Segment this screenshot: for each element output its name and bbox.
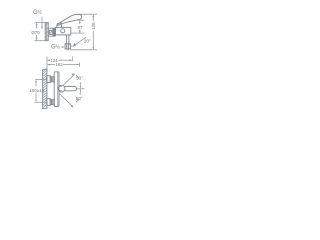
arc arrows bbox=[80, 83, 82, 85]
outlet pipe bbox=[67, 35, 69, 44]
swing line upper bbox=[63, 74, 75, 86]
svg-text:50°: 50° bbox=[76, 75, 83, 80]
svg-text:20°: 20° bbox=[84, 38, 91, 43]
pivot circle bbox=[58, 85, 65, 92]
svg-text:50°: 50° bbox=[76, 96, 83, 101]
arc stub upper bbox=[76, 75, 79, 78]
label 150±16 bbox=[29, 88, 44, 93]
upper flange bbox=[47, 76, 50, 83]
dim 97 extensions bbox=[77, 19, 85, 21]
lever handle (side) bbox=[58, 14, 82, 25]
wall section (hatched) bbox=[43, 70, 47, 109]
dim 97 line bbox=[79, 21, 81, 24]
label 138 (rotated) bbox=[91, 22, 96, 30]
s-union pipe bbox=[48, 28, 55, 36]
label 50 lower bbox=[76, 96, 83, 101]
dim 150±16 line bbox=[35, 82, 37, 87]
label Ø70 bbox=[31, 30, 40, 35]
swing arc bbox=[79, 84, 82, 93]
swing line lower bbox=[60, 94, 73, 107]
dim 163 line bbox=[48, 64, 55, 66]
label 124 bbox=[50, 58, 58, 63]
ext 124 right bbox=[71, 57, 73, 62]
dim 124 line bbox=[48, 59, 50, 61]
svg-text:138: 138 bbox=[91, 22, 96, 30]
20 degree reference line bbox=[73, 37, 86, 46]
label G1/2 bottom bbox=[51, 44, 61, 51]
20 degree arc bbox=[69, 44, 73, 47]
outlet union nut bbox=[65, 44, 70, 49]
handle neck bbox=[59, 87, 62, 91]
ext wall face up bbox=[46, 57, 48, 71]
svg-text:163: 163 bbox=[55, 62, 63, 67]
wall flange (escutcheon, side view) bbox=[45, 23, 48, 41]
leader G1/2 top bbox=[41, 17, 43, 29]
dim 150±16 extensions bbox=[35, 79, 47, 81]
svg-text:97: 97 bbox=[78, 25, 83, 30]
dim Ø70 extension lines bbox=[34, 22, 46, 24]
cartridge circle bbox=[61, 29, 65, 33]
leader arrow G1/2 bottom bbox=[61, 46, 63, 48]
arc stub lower bbox=[76, 99, 79, 102]
wall hatch bbox=[43, 68, 47, 108]
union nut (knurled) bbox=[53, 29, 55, 36]
label 50 upper bbox=[76, 75, 83, 80]
svg-text:Ø70: Ø70 bbox=[31, 30, 40, 35]
svg-text:G½: G½ bbox=[51, 44, 61, 51]
label 20deg bbox=[84, 38, 91, 43]
upper union nut bbox=[50, 77, 54, 82]
centerline dashes bbox=[77, 88, 86, 90]
lower flange bbox=[47, 99, 50, 106]
mixer body bar bbox=[54, 72, 59, 107]
dim Ø70 line+arrows bbox=[36, 23, 38, 28]
dim 138 extensions bbox=[80, 13, 97, 15]
dim 138 line bbox=[92, 15, 94, 21]
svg-text:G½: G½ bbox=[33, 9, 43, 16]
label 97 bbox=[78, 25, 83, 30]
lever capsule (plan) bbox=[65, 86, 77, 90]
lower union nut bbox=[50, 100, 54, 105]
ext 163 right / swing arc chord bbox=[79, 63, 81, 67]
mixer body block bbox=[55, 27, 70, 35]
svg-text:150±16: 150±16 bbox=[29, 88, 44, 93]
outlet stub bbox=[67, 49, 68, 50]
cartridge dome bbox=[57, 23, 62, 28]
label G1/2 top bbox=[33, 9, 43, 16]
label 163 bbox=[55, 62, 63, 67]
